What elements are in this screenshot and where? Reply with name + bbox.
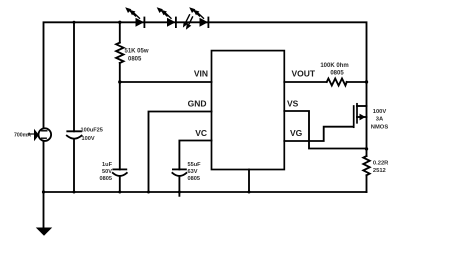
wire VS to source node — [284, 111, 366, 149]
svg-text:NMOS: NMOS — [371, 125, 389, 131]
wire VG to gate — [284, 127, 353, 141]
svg-text:63V: 63V — [188, 169, 198, 175]
op-amp U1 LED driver IC — [212, 51, 285, 170]
label R2 100K Ohm 0805 — [320, 63, 348, 77]
wire current source to bottom rail — [43, 141, 45, 192]
resistor R3 0.22R sense — [363, 149, 369, 193]
LED D1 — [125, 7, 144, 27]
resistor R2 100K — [327, 79, 367, 86]
wire R1 node down to C2 — [119, 82, 121, 169]
wire VOUT — [284, 81, 326, 83]
svg-text:55uF: 55uF — [188, 162, 202, 168]
wire VC — [179, 141, 211, 170]
svg-text:100V: 100V — [373, 109, 387, 115]
label R3 0.22R — [373, 161, 389, 174]
label C3 55uF 63V 0805 — [188, 162, 202, 182]
node junctions on rails — [42, 21, 368, 194]
svg-text:VS: VS — [287, 99, 299, 109]
current source I1 — [39, 128, 52, 141]
label C1 100uF 100V — [81, 128, 103, 143]
svg-text:0805: 0805 — [128, 57, 142, 63]
svg-text:VOUT: VOUT — [292, 69, 316, 79]
wire GND — [149, 112, 212, 193]
LED D3 — [189, 7, 208, 27]
label C2 1uF 50V 0805 — [100, 162, 113, 182]
svg-text:VC: VC — [195, 128, 207, 138]
svg-text:100K 0hm: 100K 0hm — [320, 63, 348, 69]
transistor Q1 NMOS — [354, 104, 367, 150]
label 700mA with arrow — [14, 129, 39, 141]
svg-text:0.22R: 0.22R — [373, 161, 389, 167]
svg-text:50V: 50V — [102, 169, 112, 175]
resistor R1 51K — [116, 22, 123, 82]
LED string continuation arrows — [183, 15, 193, 30]
svg-text:GND: GND — [188, 99, 207, 109]
svg-text:51K 05w: 51K 05w — [125, 49, 149, 55]
capacitor C3 55uF — [172, 169, 186, 195]
wire top rail — [44, 22, 367, 128]
ground — [36, 192, 52, 236]
svg-text:0805: 0805 — [188, 176, 200, 182]
label R1 51K Ohm 0805 — [125, 49, 149, 63]
svg-text:VIN: VIN — [194, 69, 208, 79]
svg-text:VG: VG — [290, 128, 303, 138]
capacitor C2 1uF — [113, 169, 127, 192]
svg-text:0805: 0805 — [100, 176, 112, 182]
capacitor C1 100uF input — [67, 22, 82, 192]
wire U1 bottom pin — [248, 170, 250, 193]
svg-text:3A: 3A — [376, 116, 384, 122]
svg-text:2512: 2512 — [373, 168, 386, 174]
label Q1 100V 3A NMOS — [371, 109, 389, 131]
svg-text:1uF: 1uF — [102, 162, 113, 168]
wire bottom rail — [44, 191, 367, 193]
svg-text:100V: 100V — [82, 136, 95, 142]
svg-text:0805: 0805 — [330, 71, 344, 77]
svg-text:100uF25: 100uF25 — [81, 128, 103, 134]
node source junction — [365, 147, 368, 150]
wire VIN — [120, 81, 212, 83]
LED D2 — [157, 7, 176, 27]
